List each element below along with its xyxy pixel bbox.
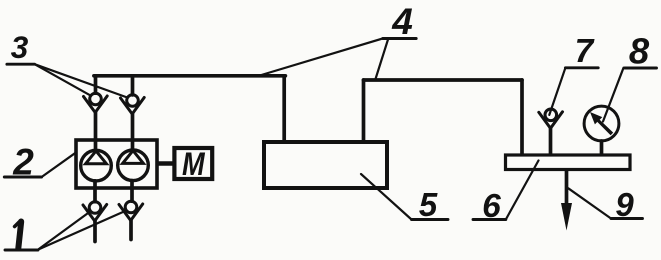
svg-text:4: 4	[391, 1, 413, 42]
svg-text:8: 8	[629, 31, 650, 72]
svg-text:5: 5	[419, 186, 438, 223]
svg-text:7: 7	[575, 33, 595, 70]
svg-text:9: 9	[615, 186, 634, 223]
svg-text:6: 6	[482, 188, 501, 225]
svg-text:2: 2	[12, 141, 34, 182]
svg-text:3: 3	[11, 29, 29, 65]
svg-text:M: M	[182, 147, 206, 183]
